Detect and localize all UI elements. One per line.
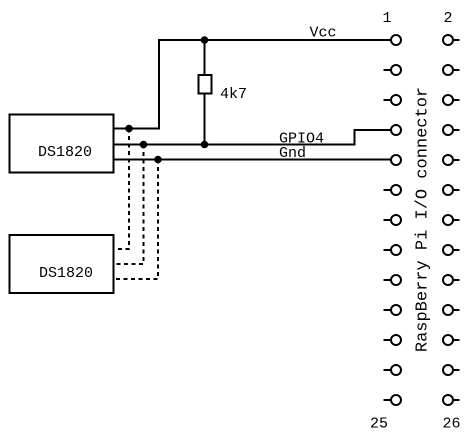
pin 6 (right column, row 3) — [443, 95, 460, 105]
pin 19 (left column, row 10) — [384, 305, 402, 315]
pin 17 (left column, row 9) — [384, 275, 402, 285]
svg-text:DS1820: DS1820 — [39, 265, 93, 282]
wire data net (U1 DQ to GPIO4 pin) — [114, 130, 392, 145]
pin 12 (right column, row 6) — [443, 185, 460, 195]
pin 10 (right column, row 5) — [443, 155, 460, 165]
svg-text:4k7: 4k7 — [220, 86, 247, 103]
svg-text:Vcc: Vcc — [309, 25, 336, 42]
pin 4 (right column, row 2) — [443, 65, 460, 75]
pin 25 (left column, row 13) — [384, 395, 402, 405]
svg-text:1: 1 — [382, 10, 391, 27]
junction data wire / dashed tap — [140, 141, 148, 149]
DS1820 U2 (second sensor) — [10, 235, 114, 293]
pin 2 (right column, row 1) — [443, 35, 460, 45]
pin 24 (right column, row 12) — [443, 365, 460, 375]
pin 15 (left column, row 8) — [384, 245, 402, 255]
pin 9 (left column, row 5) — [391, 155, 401, 165]
wire Gnd net (U1 GND to Gnd pin) — [114, 159, 392, 161]
svg-text:Gnd: Gnd — [279, 145, 306, 162]
pin 18 (right column, row 9) — [443, 275, 460, 285]
pin 13 (left column, row 7) — [384, 215, 402, 225]
pin 23 (left column, row 12) — [384, 365, 402, 375]
wire Vcc net (U1 Vdd pin up to Vcc rail, to pin 1) — [114, 40, 392, 129]
pin 26 (right column, row 13) — [443, 395, 460, 405]
svg-text:2: 2 — [443, 10, 452, 27]
pin 5 (left column, row 3) — [384, 95, 402, 105]
pin 8 (right column, row 4) — [443, 125, 460, 135]
dashed wire U2 Vdd — [114, 129, 130, 250]
svg-text:RaspBerry Pi I/O connector: RaspBerry Pi I/O connector — [414, 87, 433, 352]
pin 1 (left column, row 1) — [391, 35, 401, 45]
svg-text:25: 25 — [370, 416, 388, 433]
pin 7 (left column, row 4) — [391, 125, 401, 135]
resistor R1 4k7 pull-up — [199, 40, 212, 145]
junction Gnd wire / dashed tap — [154, 156, 162, 164]
pin 14 (right column, row 7) — [443, 215, 460, 225]
svg-text:26: 26 — [442, 416, 460, 433]
pin 11 (left column, row 6) — [384, 185, 402, 195]
pin 22 (right column, row 11) — [443, 335, 460, 345]
pin 20 (right column, row 10) — [443, 305, 460, 315]
dashed wire U2 GND — [114, 160, 159, 280]
junction Vcc/resistor top — [201, 36, 209, 44]
pin 3 (left column, row 2) — [384, 65, 402, 75]
svg-text:DS1820: DS1820 — [38, 144, 92, 161]
dashed wire U2 DQ — [114, 145, 144, 265]
junction resistor bottom / data wire — [201, 141, 209, 149]
DS1820 U1 (top sensor) — [10, 115, 114, 173]
junction Vcc wire / dashed tap — [125, 125, 133, 133]
pin 16 (right column, row 8) — [443, 245, 460, 255]
pin 21 (left column, row 11) — [384, 335, 402, 345]
